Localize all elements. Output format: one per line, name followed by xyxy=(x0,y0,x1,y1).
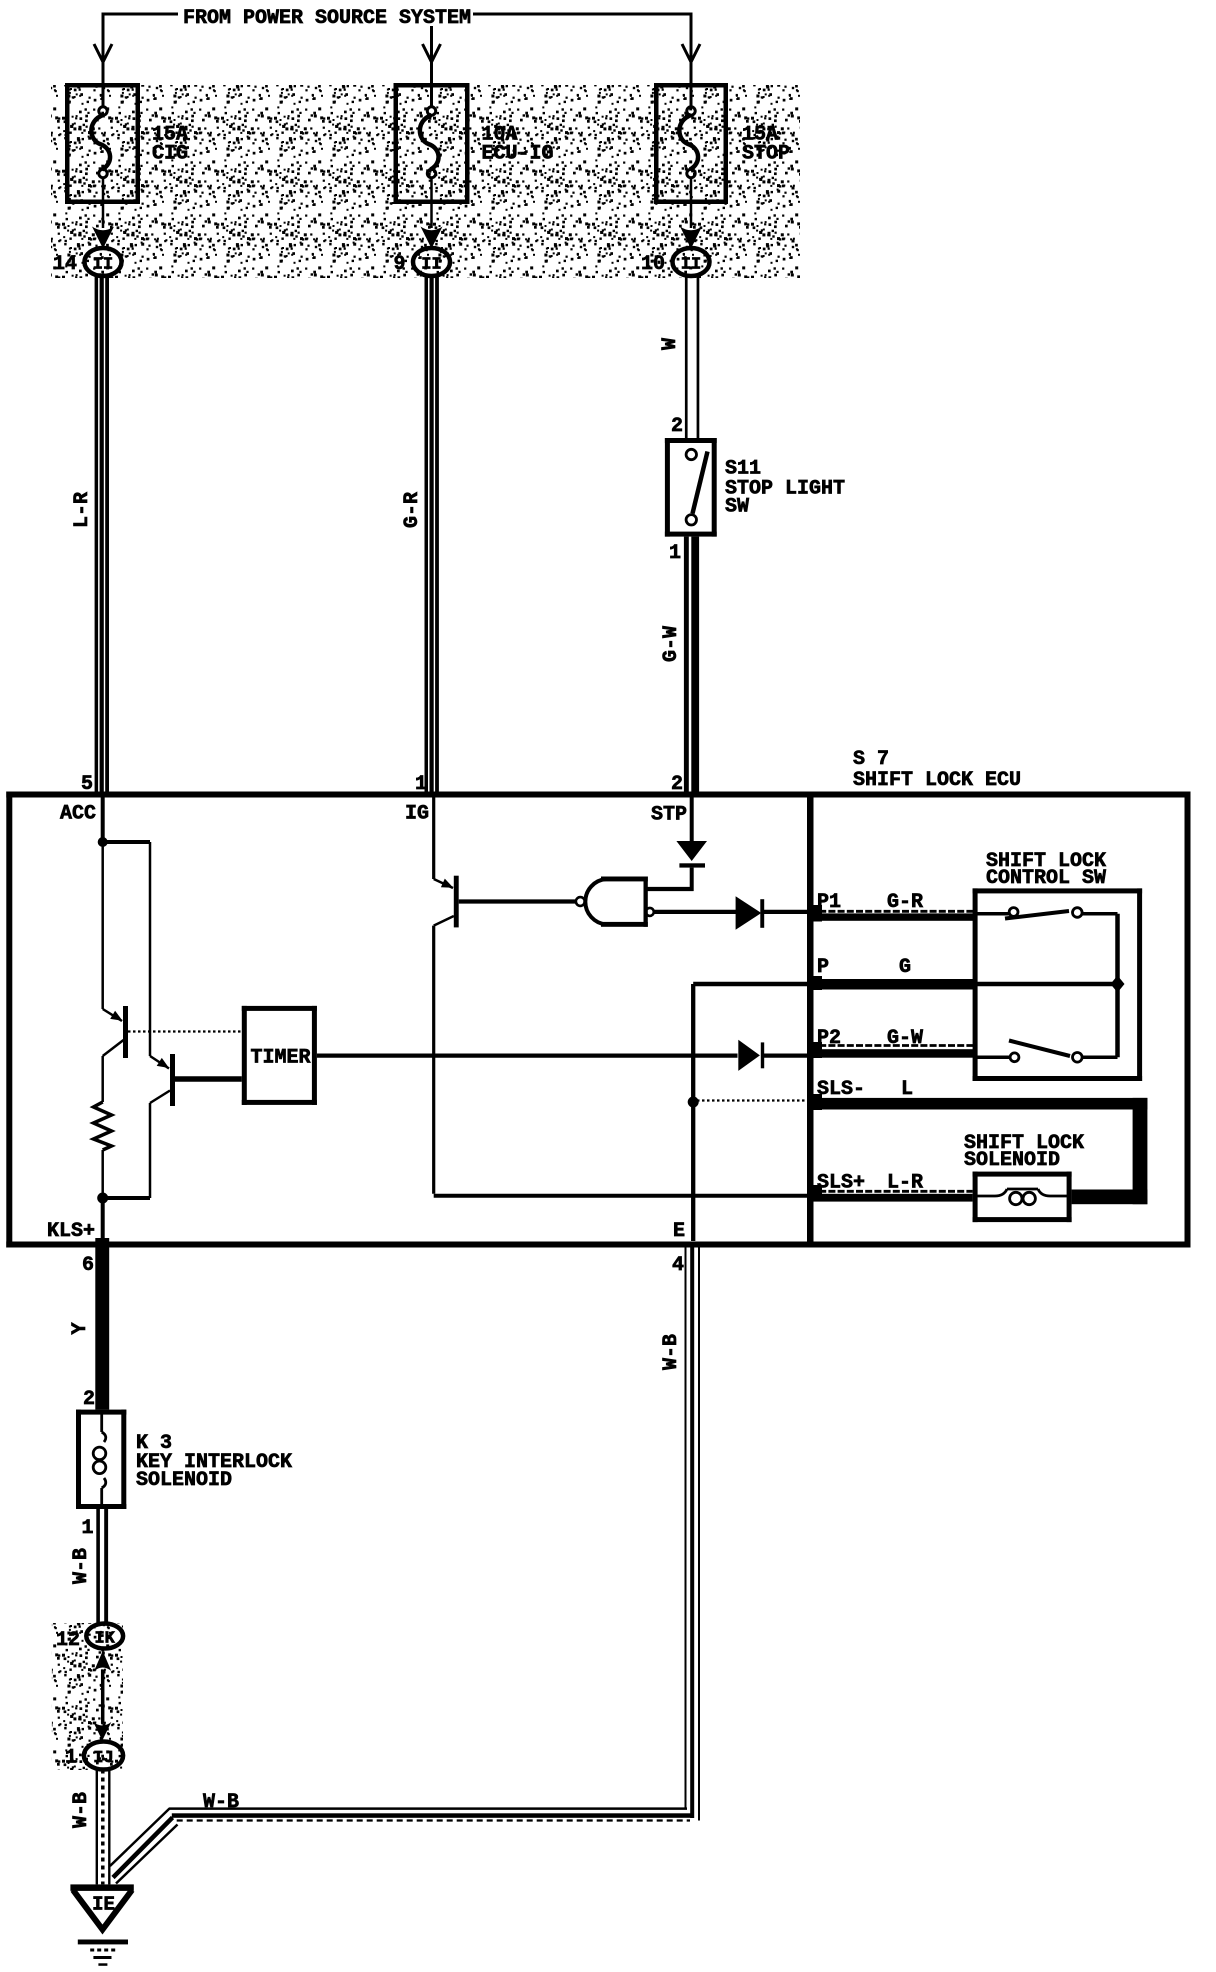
svg-text:5: 5 xyxy=(81,773,93,796)
svg-text:IK: IK xyxy=(94,1630,115,1649)
svg-text:L-R: L-R xyxy=(887,1172,923,1195)
svg-text:4: 4 xyxy=(672,1254,684,1277)
svg-text:FROM POWER SOURCE SYSTEM: FROM POWER SOURCE SYSTEM xyxy=(183,7,471,30)
svg-text:12: 12 xyxy=(56,1629,80,1652)
svg-text:ECU-IG: ECU-IG xyxy=(482,143,554,166)
svg-text:IG: IG xyxy=(405,803,429,826)
svg-text:IJ: IJ xyxy=(93,1749,113,1768)
svg-text:P1: P1 xyxy=(817,891,841,914)
svg-text:S 7: S 7 xyxy=(853,748,889,771)
svg-text:E: E xyxy=(673,1220,685,1243)
svg-text:2: 2 xyxy=(671,415,683,438)
svg-text:STP: STP xyxy=(651,804,687,827)
svg-text:1: 1 xyxy=(415,773,427,796)
svg-text:9: 9 xyxy=(393,253,405,276)
svg-text:ACC: ACC xyxy=(60,803,96,826)
svg-text:G-W: G-W xyxy=(887,1027,923,1050)
svg-text:6: 6 xyxy=(82,1254,94,1277)
svg-text:P2: P2 xyxy=(817,1027,841,1050)
svg-text:CONTROL SW: CONTROL SW xyxy=(986,867,1106,890)
svg-text:II: II xyxy=(93,256,113,275)
svg-text:W-B: W-B xyxy=(70,1548,93,1584)
svg-text:SOLENOID: SOLENOID xyxy=(136,1469,232,1492)
svg-text:KLS+: KLS+ xyxy=(47,1220,95,1243)
svg-text:Y: Y xyxy=(69,1322,92,1334)
svg-text:IE: IE xyxy=(92,1894,115,1916)
svg-text:SLS+: SLS+ xyxy=(817,1172,865,1195)
svg-text:SHIFT LOCK ECU: SHIFT LOCK ECU xyxy=(853,769,1021,792)
svg-text:G-R: G-R xyxy=(401,492,424,528)
svg-text:W: W xyxy=(659,338,682,350)
svg-text:W-B: W-B xyxy=(660,1334,683,1370)
svg-text:STOP: STOP xyxy=(742,143,790,166)
svg-text:L: L xyxy=(901,1078,913,1101)
svg-text:2: 2 xyxy=(671,773,683,796)
svg-text:1: 1 xyxy=(669,542,681,565)
svg-text:14: 14 xyxy=(53,253,77,276)
svg-text:G-R: G-R xyxy=(887,891,923,914)
svg-text:2: 2 xyxy=(83,1388,95,1411)
svg-text:W-B: W-B xyxy=(203,1791,239,1814)
svg-text:W-B: W-B xyxy=(70,1792,93,1828)
svg-text:G-W: G-W xyxy=(660,626,683,662)
svg-text:SLS-: SLS- xyxy=(817,1078,865,1101)
svg-text:TIMER: TIMER xyxy=(251,1047,311,1070)
svg-text:L-R: L-R xyxy=(71,492,94,528)
svg-text:1: 1 xyxy=(81,1517,93,1540)
svg-text:1: 1 xyxy=(65,1747,77,1770)
svg-text:II: II xyxy=(681,256,701,275)
svg-text:P: P xyxy=(817,956,829,979)
svg-text:CIG: CIG xyxy=(152,143,188,166)
svg-text:SW: SW xyxy=(725,496,749,519)
svg-text:10: 10 xyxy=(641,253,665,276)
svg-text:G: G xyxy=(899,956,911,979)
svg-text:SOLENOID: SOLENOID xyxy=(964,1149,1060,1172)
svg-text:II: II xyxy=(421,256,441,275)
